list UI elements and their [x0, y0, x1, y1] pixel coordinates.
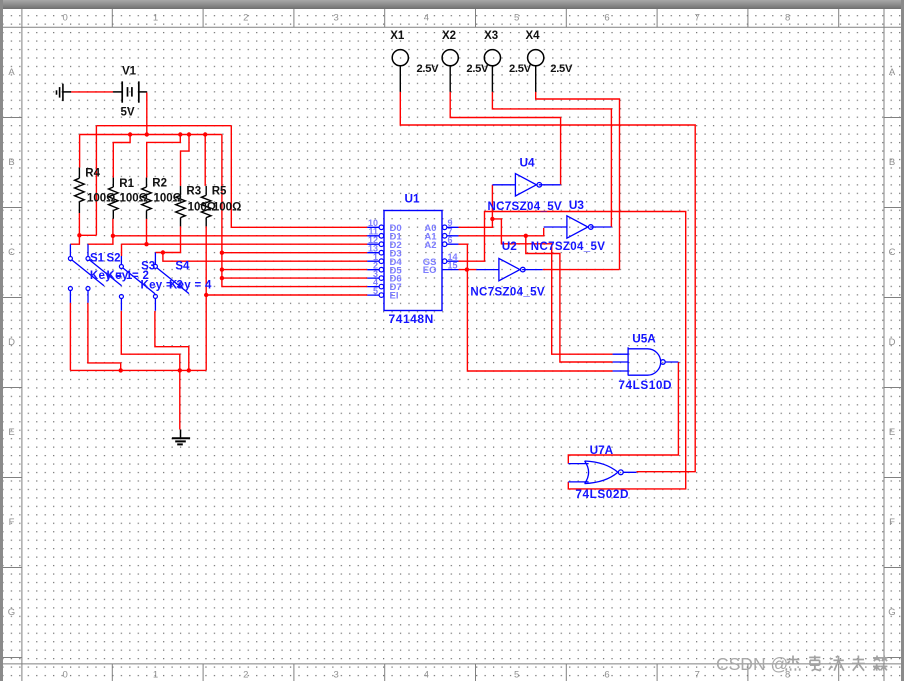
svg-text:Key = 4: Key = 4: [169, 280, 212, 292]
svg-text:100Ω: 100Ω: [120, 192, 148, 204]
svg-text:5: 5: [514, 12, 519, 23]
svg-text:5V: 5V: [121, 107, 135, 119]
svg-text:C: C: [889, 247, 896, 258]
svg-text:3: 3: [333, 670, 338, 681]
svg-text:D: D: [889, 337, 896, 348]
svg-text:0: 0: [63, 12, 68, 23]
svg-text:V1: V1: [122, 66, 137, 78]
svg-text:2.5V: 2.5V: [509, 63, 532, 75]
svg-text:C: C: [8, 247, 15, 258]
svg-text:CSDN @: CSDN @: [716, 654, 788, 674]
svg-text:F: F: [889, 517, 895, 528]
svg-text:U7A: U7A: [590, 443, 614, 457]
svg-text:G: G: [8, 607, 15, 618]
svg-text:X4: X4: [526, 30, 541, 42]
svg-text:R4: R4: [85, 168, 100, 180]
svg-text:74148N: 74148N: [389, 312, 434, 326]
svg-text:U1: U1: [405, 192, 421, 206]
svg-text:A: A: [889, 67, 896, 78]
svg-text:0: 0: [63, 670, 68, 681]
svg-text:R3: R3: [186, 186, 201, 198]
svg-text:U5A: U5A: [632, 331, 656, 345]
svg-text:5: 5: [373, 286, 378, 296]
svg-text:2.5V: 2.5V: [466, 63, 489, 75]
svg-text:7: 7: [695, 670, 700, 681]
svg-text:1: 1: [153, 12, 158, 23]
svg-text:E: E: [889, 427, 895, 438]
svg-text:100Ω: 100Ω: [213, 202, 241, 214]
svg-text:100Ω: 100Ω: [87, 192, 115, 204]
svg-text:EO: EO: [423, 265, 437, 276]
svg-text:A2: A2: [424, 240, 436, 251]
svg-text:U2: U2: [502, 239, 518, 253]
svg-text:F: F: [9, 517, 15, 528]
svg-text:G: G: [888, 607, 895, 618]
svg-text:4: 4: [424, 670, 429, 681]
svg-text:15: 15: [448, 260, 458, 270]
svg-text:2: 2: [243, 12, 248, 23]
svg-text:100Ω: 100Ω: [188, 202, 216, 214]
svg-text:100Ω: 100Ω: [154, 193, 182, 205]
svg-text:NC7SZ04_5V: NC7SZ04_5V: [531, 241, 605, 253]
svg-text:2.5V: 2.5V: [550, 63, 573, 75]
svg-text:74LS02D: 74LS02D: [575, 487, 629, 501]
svg-text:X1: X1: [390, 30, 405, 42]
svg-text:B: B: [889, 157, 895, 168]
svg-text:8: 8: [785, 12, 790, 23]
svg-text:R1: R1: [119, 178, 134, 190]
svg-text:B: B: [8, 157, 14, 168]
svg-text:S1: S1: [90, 253, 105, 265]
svg-text:6: 6: [448, 235, 453, 245]
svg-text:1: 1: [153, 670, 158, 681]
svg-text:U4: U4: [520, 156, 536, 170]
svg-text:5: 5: [514, 670, 519, 681]
svg-text:3: 3: [333, 12, 338, 23]
svg-text:X2: X2: [442, 30, 456, 42]
svg-text:74LS10D: 74LS10D: [618, 378, 672, 392]
svg-text:2: 2: [243, 670, 248, 681]
svg-text:NC7SZ04_5V: NC7SZ04_5V: [488, 201, 562, 213]
svg-text:6: 6: [604, 12, 609, 23]
svg-text:A: A: [8, 67, 15, 78]
svg-text:D: D: [8, 337, 15, 348]
svg-text:6: 6: [604, 670, 609, 681]
svg-text:S2: S2: [107, 253, 121, 265]
svg-text:E: E: [8, 427, 14, 438]
svg-text:X3: X3: [484, 30, 498, 42]
svg-text:NC7SZ04_5V: NC7SZ04_5V: [470, 286, 544, 298]
svg-text:R5: R5: [212, 186, 227, 198]
svg-text:EI: EI: [390, 291, 399, 302]
svg-text:R2: R2: [152, 178, 167, 190]
svg-text:2.5V: 2.5V: [417, 63, 440, 75]
svg-text:4: 4: [424, 12, 429, 23]
svg-text:7: 7: [695, 12, 700, 23]
svg-text:S4: S4: [175, 260, 190, 272]
svg-text:U3: U3: [569, 198, 585, 212]
